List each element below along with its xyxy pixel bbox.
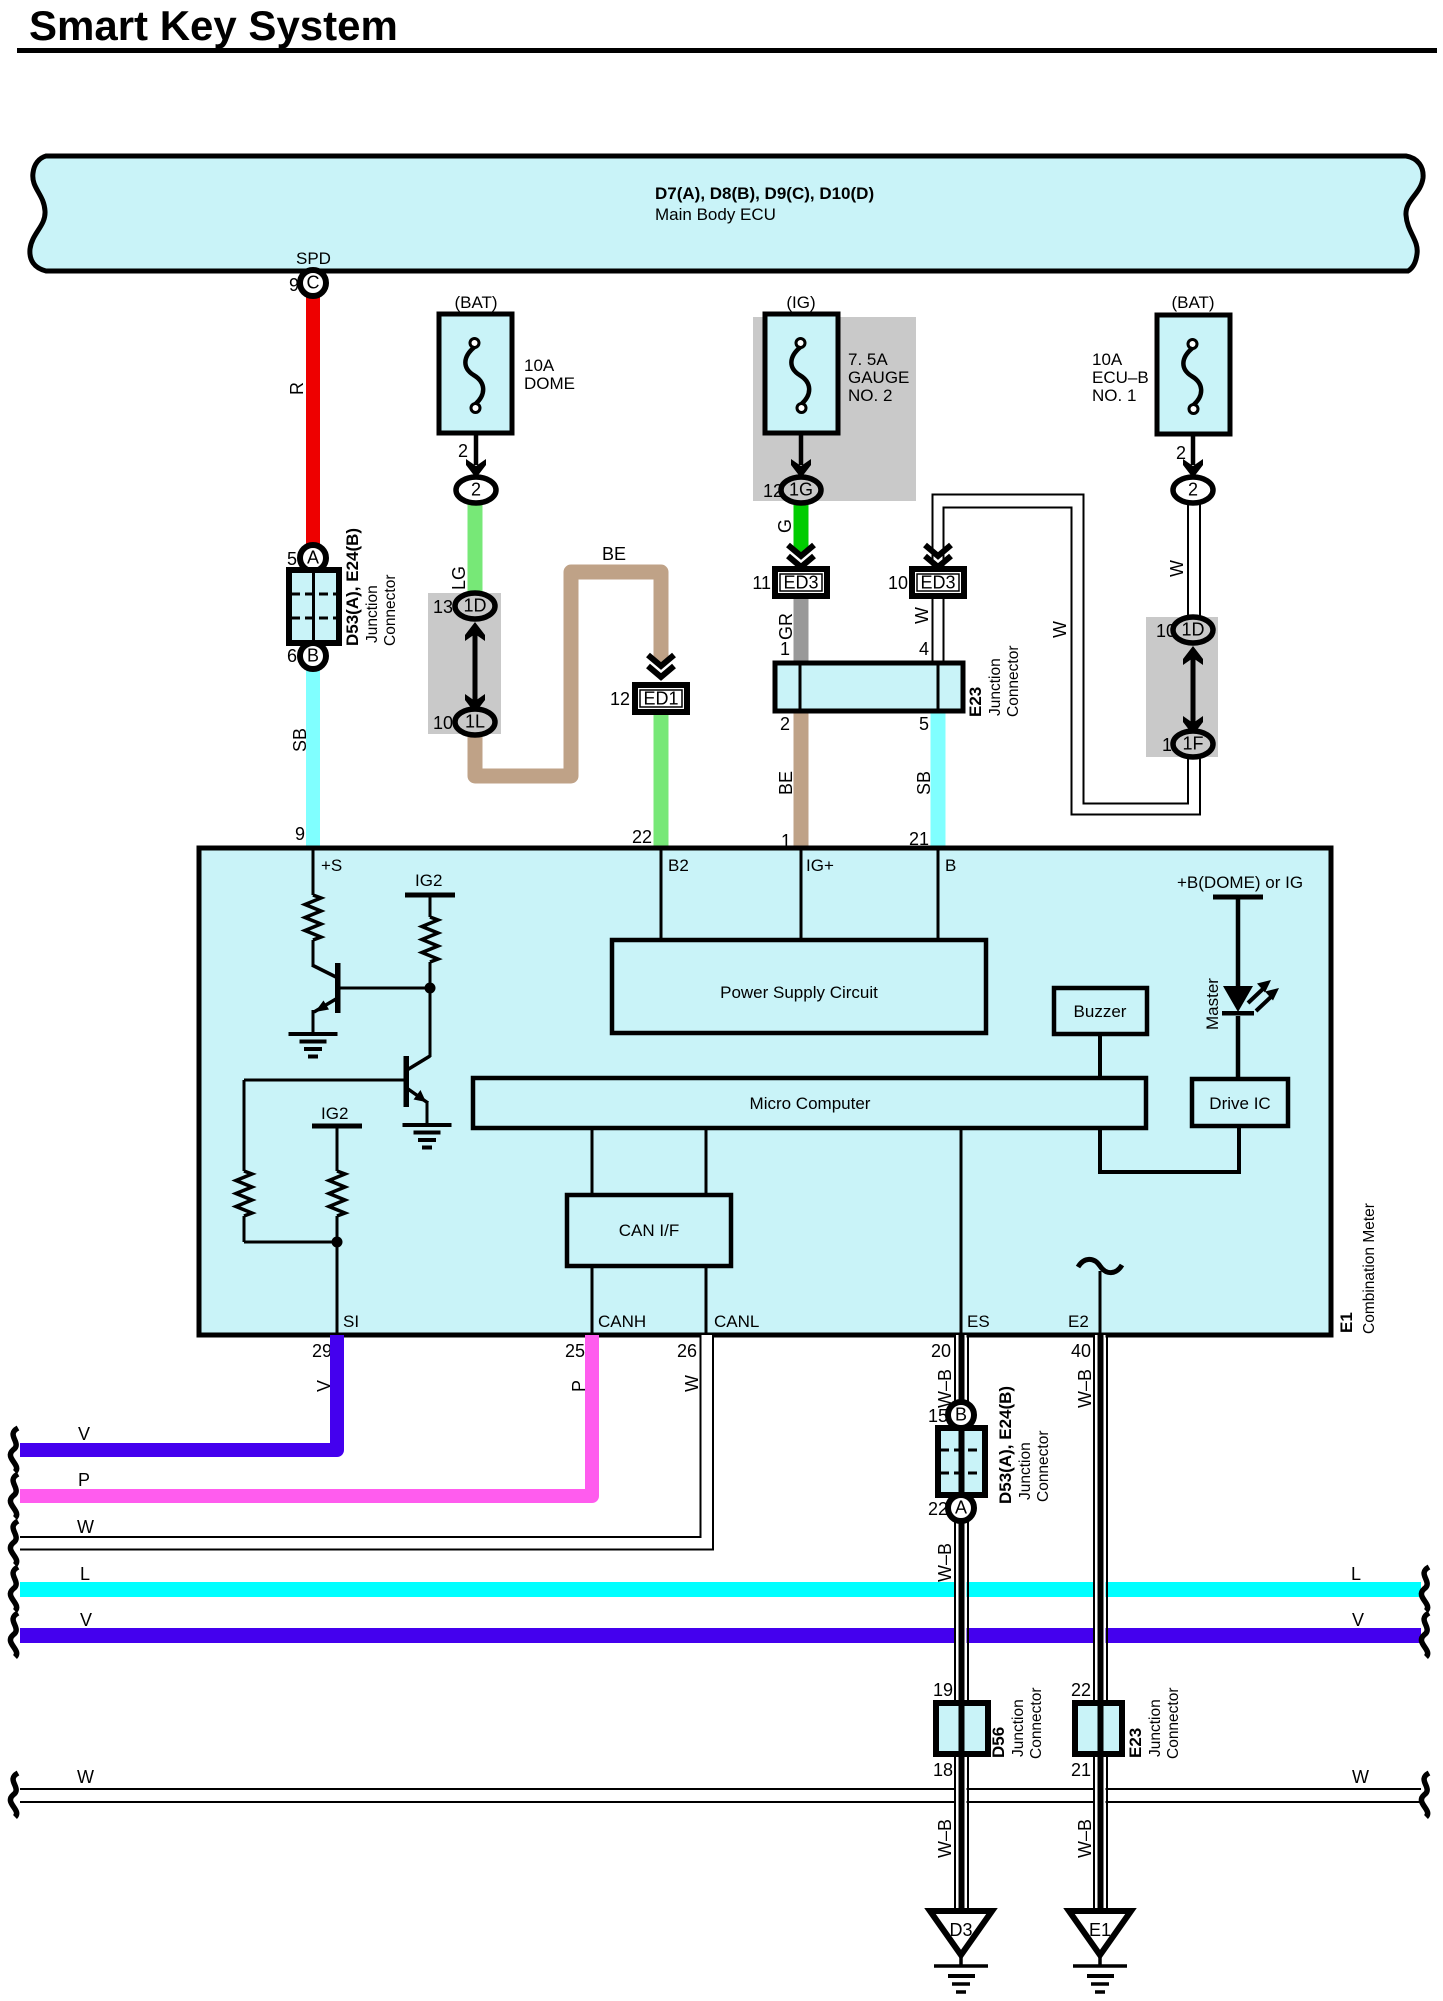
svg-text:W: W <box>77 1517 94 1537</box>
svg-text:G: G <box>775 519 795 533</box>
svg-text:L: L <box>80 1564 90 1584</box>
svg-text:Power Supply Circuit: Power Supply Circuit <box>720 983 878 1002</box>
Micro Computer box <box>473 1078 1146 1128</box>
svg-text:SPD: SPD <box>296 249 331 268</box>
ground E1 <box>1069 1911 1131 1992</box>
svg-text:2: 2 <box>780 714 790 734</box>
wire GR ED3 to E23 pin 1 <box>794 596 809 663</box>
svg-text:29: 29 <box>312 1341 332 1361</box>
break squiggle L right <box>1421 1567 1429 1611</box>
svg-text:6: 6 <box>287 646 297 666</box>
svg-text:B2: B2 <box>668 856 689 875</box>
Q2 collector diagonal <box>407 1056 430 1070</box>
svg-text:D56: D56 <box>989 1727 1008 1758</box>
svg-text:SI: SI <box>343 1312 359 1331</box>
rail bar IG2 no2 <box>312 1124 362 1129</box>
svg-text:IG2: IG2 <box>321 1104 348 1123</box>
pin B2 internal wire <box>660 850 663 940</box>
svg-text:Junction: Junction <box>1017 1442 1034 1500</box>
wire buzzer to MC <box>1098 1034 1102 1078</box>
svg-text:ES: ES <box>967 1312 990 1331</box>
svg-text:Master: Master <box>1203 978 1222 1030</box>
svg-text:10A: 10A <box>1092 350 1123 369</box>
wires CAN I/F to CANH/CANL pins <box>591 1266 594 1333</box>
svg-text:B: B <box>307 646 319 666</box>
svg-text:W: W <box>912 607 932 624</box>
svg-text:Junction: Junction <box>1147 1699 1164 1757</box>
svg-text:SB: SB <box>290 728 310 752</box>
svg-text:ED3: ED3 <box>920 573 955 593</box>
svg-text:1F: 1F <box>1182 734 1203 754</box>
break squiggle V2 right <box>1421 1613 1429 1657</box>
Main Body ECU banner <box>30 156 1423 271</box>
svg-text:2: 2 <box>1176 443 1186 463</box>
svg-text:V: V <box>1352 1610 1364 1630</box>
wires R3/R4 to SI node <box>243 1216 246 1242</box>
connector 1F <box>1173 731 1213 757</box>
svg-text:V: V <box>78 1424 90 1444</box>
svg-text:D7(A), D8(B), D9(C), D10(D): D7(A), D8(B), D9(C), D10(D) <box>655 184 874 203</box>
Q2 base line <box>244 1079 404 1082</box>
wire base branch to R3 <box>243 1080 246 1171</box>
fuse 10A DOME <box>439 314 512 433</box>
ground (Q2 emitter) <box>403 1125 452 1148</box>
svg-text:W: W <box>1050 621 1070 638</box>
node junction dot <box>429 962 432 1057</box>
svg-text:Micro Computer: Micro Computer <box>750 1094 871 1113</box>
svg-text:Connector: Connector <box>1165 1687 1182 1759</box>
shield connector ED3 no11 <box>775 569 827 596</box>
resistor R3 <box>236 1171 252 1216</box>
wire MC to ES pin <box>960 1128 963 1333</box>
wire W-B E2 pin to ground E1 (outlines) <box>1094 1335 1107 1908</box>
junction connector E23 bottom <box>1075 1703 1122 1754</box>
connector 1L <box>455 709 495 735</box>
gray panel behind 1D/1L connectors <box>428 593 501 734</box>
svg-text:21: 21 <box>1071 1760 1091 1780</box>
svg-text:Junction: Junction <box>987 658 1004 716</box>
break squiggle L left <box>10 1567 18 1611</box>
svg-text:W: W <box>1167 560 1187 577</box>
svg-text:40: 40 <box>1071 1341 1091 1361</box>
CAN I/F box <box>567 1195 731 1266</box>
svg-text:10: 10 <box>888 573 908 593</box>
svg-text:Main Body ECU: Main Body ECU <box>655 205 776 224</box>
Q1 emitter <box>314 999 336 1012</box>
svg-text:LG: LG <box>449 566 469 590</box>
wire rail to R4 <box>336 1126 339 1171</box>
chevron arrow into ED3 no10 <box>925 545 951 567</box>
svg-text:10: 10 <box>1156 621 1176 641</box>
svg-text:25: 25 <box>565 1341 585 1361</box>
svg-text:D53(A), E24(B): D53(A), E24(B) <box>996 1386 1015 1504</box>
svg-text:GR: GR <box>776 613 796 640</box>
svg-text:E2: E2 <box>1068 1312 1089 1331</box>
svg-text:19: 19 <box>933 1680 953 1700</box>
wire W (horizontal bottom, white hollow) <box>20 1789 1421 1802</box>
junction connector D53(A) E24(B) bottom <box>938 1428 985 1495</box>
wire black fuse DOME to arrow <box>474 433 479 465</box>
svg-text:18: 18 <box>933 1760 953 1780</box>
svg-text:BE: BE <box>602 544 626 564</box>
svg-text:4: 4 <box>919 639 929 659</box>
svg-text:2: 2 <box>1188 480 1198 500</box>
svg-text:DOME: DOME <box>524 374 575 393</box>
svg-text:ED1: ED1 <box>643 689 678 709</box>
svg-text:NO. 1: NO. 1 <box>1092 386 1136 405</box>
svg-text:Drive IC: Drive IC <box>1209 1094 1270 1113</box>
LED diode (Master) <box>1222 980 1279 1016</box>
wire W-B black stripe (D3 branch) <box>959 1335 965 1908</box>
wire SB junction B to pin 9 <box>306 668 320 846</box>
wire R (red) SPD to junction A <box>306 294 320 547</box>
svg-text:10A: 10A <box>524 356 555 375</box>
svg-text:IG2: IG2 <box>415 871 442 890</box>
rail bar +B(DOME) or IG <box>1213 895 1263 900</box>
svg-text:C: C <box>307 273 320 293</box>
wire W pin 26 (white hollow) <box>20 1335 713 1550</box>
break squiggle W2 left <box>10 1773 18 1817</box>
svg-text:GAUGE: GAUGE <box>848 368 909 387</box>
svg-text:1L: 1L <box>465 712 485 732</box>
wire SB E23 pin 5 to pin 21 B <box>931 711 946 846</box>
break squiggle P left <box>10 1474 18 1518</box>
svg-text:E23: E23 <box>966 687 985 717</box>
junction connector E23 <box>775 663 963 711</box>
svg-text:D53(A), E24(B): D53(A), E24(B) <box>343 528 362 646</box>
svg-text:E1: E1 <box>1337 1312 1356 1333</box>
svg-text:D3: D3 <box>949 1920 972 1940</box>
Combination Meter box E1 <box>199 848 1331 1335</box>
svg-text:1D: 1D <box>1181 620 1204 640</box>
connector pin C (SPD) <box>300 270 326 296</box>
connector pin 2 (DOME) <box>456 477 496 503</box>
wire LED to Drive IC <box>1236 1016 1241 1079</box>
pin +S internal wire <box>312 850 315 895</box>
gray panel behind GAUGE fuse <box>753 317 916 501</box>
svg-text:1D: 1D <box>463 596 486 616</box>
svg-text:(BAT): (BAT) <box>454 293 497 312</box>
svg-text:(IG): (IG) <box>786 293 815 312</box>
resistor R4 <box>329 1171 345 1216</box>
svg-text:Smart Key System: Smart Key System <box>29 2 398 49</box>
wire R1 to Q1 <box>312 940 315 966</box>
wire LG ED1 to pin 22 B2 <box>654 706 669 846</box>
svg-text:ED3: ED3 <box>783 573 818 593</box>
junction connector pin A <box>300 545 326 571</box>
wire W ED3 no10 to E23 pin 4 (white hollow) <box>933 596 944 663</box>
svg-text:Connector: Connector <box>1005 645 1022 717</box>
svg-text:20: 20 <box>931 1341 951 1361</box>
wire BE E23 pin 2 to pin 1 IG+ <box>794 711 809 846</box>
svg-text:15: 15 <box>928 1406 948 1426</box>
wire V pin 29 <box>20 1335 337 1450</box>
arrowhead down to 1L <box>465 694 485 713</box>
svg-text:CAN I/F: CAN I/F <box>619 1221 679 1240</box>
svg-text:Connector: Connector <box>1035 1430 1052 1502</box>
ground (Q1 emitter) <box>289 1034 338 1057</box>
svg-text:7. 5A: 7. 5A <box>848 350 888 369</box>
svg-text:Junction: Junction <box>1010 1699 1027 1757</box>
ground D3 <box>930 1911 992 1992</box>
svg-text:13: 13 <box>433 597 453 617</box>
gray panel behind 1D/1F connectors <box>1146 617 1218 757</box>
break squiggle V2 left <box>10 1613 18 1657</box>
svg-text:+S: +S <box>321 856 342 875</box>
svg-text:W–B: W–B <box>935 1543 955 1582</box>
svg-text:CANL: CANL <box>714 1312 759 1331</box>
svg-text:W: W <box>682 1375 702 1392</box>
Drive IC box <box>1192 1079 1288 1126</box>
svg-text:BE: BE <box>776 771 796 795</box>
svg-text:CANH: CANH <box>598 1312 646 1331</box>
arrowhead down to 1F <box>1183 716 1203 735</box>
chevron arrow into ED3 no11 <box>788 545 814 567</box>
wire L (horizontal) <box>20 1582 1421 1597</box>
arrow below fuse GAUGE <box>791 459 811 478</box>
title underline <box>17 48 1437 53</box>
chevron arrow into ED1 <box>648 655 674 677</box>
wire rail to LED <box>1236 897 1241 986</box>
break squiggle W2 right <box>1421 1773 1429 1817</box>
fuse 7.5A GAUGE NO.2 <box>765 314 838 433</box>
svg-text:5: 5 <box>919 714 929 734</box>
arrow link 1D-1L <box>473 630 478 705</box>
resistor R2 (IG2) <box>422 917 438 962</box>
junction pin A bottom <box>948 1495 974 1521</box>
svg-text:E23: E23 <box>1126 1728 1145 1758</box>
svg-text:Connector: Connector <box>382 574 399 646</box>
wire black fuse GAUGE to arrow <box>799 433 804 465</box>
arrowhead up to 1D right <box>1183 646 1203 665</box>
connector 1D (left) <box>455 593 495 619</box>
shield connector ED1 <box>635 685 687 712</box>
arrow link 1D-1F <box>1191 654 1196 727</box>
svg-text:Junction: Junction <box>364 585 381 643</box>
E2 tilde symbol <box>1078 1259 1122 1272</box>
Q2 emitter <box>408 1089 428 1103</box>
svg-text:Connector: Connector <box>1028 1687 1045 1759</box>
wire W-B black stripe (E1 branch) <box>1098 1335 1104 1908</box>
svg-text:W: W <box>77 1767 94 1787</box>
wire P pin 25 <box>20 1335 592 1496</box>
wire G 1G to ED3 <box>794 502 809 552</box>
shield connector ED3 no10 <box>912 569 964 596</box>
svg-text:IG+: IG+ <box>806 856 834 875</box>
svg-text:SB: SB <box>914 771 934 795</box>
wire BE 1L to ED1 <box>475 572 661 776</box>
svg-text:22: 22 <box>928 1499 948 1519</box>
junction pin B bottom <box>948 1402 974 1428</box>
Power Supply Circuit box <box>612 940 986 1033</box>
arrowhead up to 1D <box>465 622 485 641</box>
svg-text:P: P <box>78 1470 90 1490</box>
svg-text:12: 12 <box>610 689 630 709</box>
svg-text:B: B <box>955 1405 967 1425</box>
transistor Q2 base bar <box>404 1056 410 1107</box>
wire black fuse ECU-B to arrow <box>1191 434 1196 465</box>
svg-text:5: 5 <box>287 549 297 569</box>
resistor R1 (+S) <box>305 895 321 940</box>
pin B internal wire <box>937 850 940 940</box>
svg-text:1G: 1G <box>789 480 813 500</box>
svg-text:(BAT): (BAT) <box>1171 293 1214 312</box>
connector 1D (right) <box>1173 617 1213 643</box>
svg-text:B: B <box>945 856 956 875</box>
svg-text:9: 9 <box>295 824 305 844</box>
Buzzer box <box>1054 988 1147 1034</box>
connector pin 2 (ECU-B) <box>1173 477 1213 503</box>
svg-text:W: W <box>1352 1767 1369 1787</box>
svg-text:Buzzer: Buzzer <box>1074 1002 1127 1021</box>
svg-text:Combination Meter: Combination Meter <box>1361 1203 1378 1334</box>
svg-text:1: 1 <box>780 639 790 659</box>
pin IG+ internal wire <box>800 850 803 940</box>
svg-text:10: 10 <box>433 713 453 733</box>
junction connector pin B <box>300 643 326 669</box>
svg-text:2: 2 <box>471 480 481 500</box>
svg-text:A: A <box>955 1498 967 1518</box>
svg-text:11: 11 <box>752 573 771 593</box>
svg-text:W–B: W–B <box>1075 1369 1095 1408</box>
svg-text:A: A <box>307 548 319 568</box>
svg-text:+B(DOME) or IG: +B(DOME) or IG <box>1177 873 1303 892</box>
svg-text:W–B: W–B <box>935 1819 955 1858</box>
break squiggle V left <box>10 1428 18 1472</box>
svg-text:NO. 2: NO. 2 <box>848 386 892 405</box>
svg-text:22: 22 <box>1071 1680 1091 1700</box>
arrow below fuse ECU-B <box>1183 459 1203 478</box>
svg-text:V: V <box>80 1610 92 1630</box>
connector pin 1G <box>781 477 821 503</box>
wires MC to CAN I/F <box>591 1128 594 1195</box>
svg-text:22: 22 <box>632 827 652 847</box>
svg-text:9: 9 <box>289 275 299 295</box>
svg-text:E1: E1 <box>1089 1920 1111 1940</box>
transistor Q1 base bar <box>335 963 341 1013</box>
break squiggle W left <box>10 1521 18 1565</box>
wire MC to Drive IC bottom <box>1100 1126 1239 1172</box>
junction connector D53(A) E24(B) top <box>289 570 339 643</box>
svg-text:W–B: W–B <box>935 1369 955 1408</box>
svg-text:1: 1 <box>1162 735 1172 755</box>
arrow below fuse DOME <box>466 459 486 478</box>
svg-text:R: R <box>287 382 307 395</box>
wire E2 pin <box>1099 1271 1102 1333</box>
wire LG fuse DOME to 1D <box>468 502 483 598</box>
wire W fuse ECU-B loop (white hollow) <box>933 495 1201 815</box>
svg-text:W–B: W–B <box>1075 1819 1095 1858</box>
fuse 10A ECU-B NO.1 <box>1157 315 1230 434</box>
rail bar IG2 no1 <box>405 893 455 898</box>
Q1 base line to node <box>340 987 430 990</box>
svg-text:2: 2 <box>458 441 468 461</box>
svg-text:ECU–B: ECU–B <box>1092 368 1149 387</box>
junction connector D56 <box>936 1703 988 1754</box>
svg-text:26: 26 <box>677 1341 697 1361</box>
wire W-B ES pin to ground D3 (outlines) <box>955 1335 968 1908</box>
svg-text:L: L <box>1351 1564 1361 1584</box>
wire V (horizontal) <box>20 1628 1421 1643</box>
